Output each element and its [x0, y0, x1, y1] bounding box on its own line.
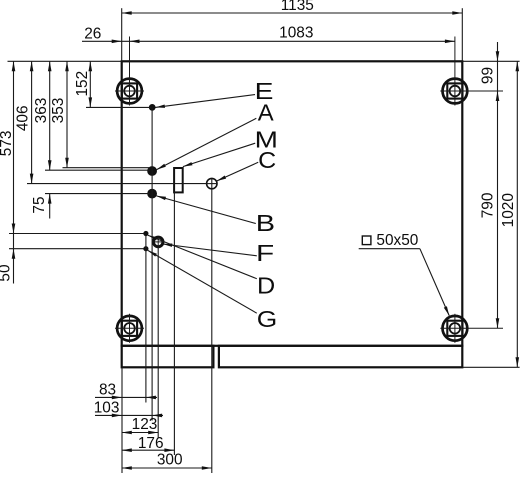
dimension 75 [49, 194, 51, 219]
svg-text:1135: 1135 [281, 0, 314, 14]
svg-text:A: A [258, 100, 274, 126]
svg-text:1020: 1020 [500, 193, 517, 227]
extension line E/A/B column [151, 107, 153, 420]
leader G [148, 250, 257, 313]
base strip right [219, 346, 462, 368]
extension line B level [45, 193, 150, 195]
dimension 176 [122, 449, 175, 451]
dimension 26 [82, 40, 130, 42]
mounting hole bottom-right [443, 316, 468, 341]
leader D [148, 235, 257, 278]
leader A [157, 118, 257, 169]
extension line F column [157, 247, 159, 438]
mounting hole top-left [117, 79, 142, 104]
svg-text:G: G [257, 306, 278, 332]
leader E [155, 95, 255, 108]
leader M [183, 143, 255, 166]
svg-text:103: 103 [94, 399, 120, 416]
svg-text:F: F [256, 240, 274, 266]
svg-text:50x50: 50x50 [376, 232, 418, 249]
extension line hole TR horizontal [440, 90, 503, 92]
dimension 300 [122, 467, 212, 469]
extension line A level [45, 169, 150, 171]
svg-text:176: 176 [138, 435, 164, 452]
svg-text:26: 26 [84, 25, 101, 42]
mounting hole top-right [443, 79, 468, 104]
dimension 406 [31, 61, 33, 183]
dimension 123 [122, 432, 158, 434]
svg-text:363: 363 [33, 98, 50, 124]
point E [149, 105, 155, 111]
dimension 1020 [516, 61, 518, 367]
base strip left [122, 346, 214, 368]
svg-text:300: 300 [157, 452, 183, 469]
dimension 353 [66, 61, 68, 167]
svg-text:B: B [256, 210, 275, 236]
extension line D level [9, 233, 144, 235]
mounting hole bottom-left [117, 316, 142, 341]
dimension 99 [497, 42, 499, 328]
note square 50x50 [362, 236, 371, 245]
point G [144, 247, 148, 251]
point A [148, 167, 157, 176]
dimension 152 [89, 61, 91, 107]
point D [144, 231, 148, 235]
extension line C column [211, 189, 213, 473]
dimension 573 [13, 61, 15, 283]
hole C [207, 178, 217, 188]
extension line hole TR vertical [454, 37, 456, 106]
hole F [153, 237, 163, 247]
slot M [174, 168, 183, 192]
svg-text:50: 50 [0, 264, 14, 281]
leader square 50x50 [359, 248, 420, 250]
svg-text:123: 123 [132, 416, 158, 433]
extension line G level [9, 248, 144, 250]
leader C [217, 162, 259, 181]
svg-text:D: D [257, 273, 275, 299]
dimension 363 [49, 61, 51, 170]
plate outline [122, 61, 463, 346]
svg-text:573: 573 [0, 131, 15, 157]
svg-text:75: 75 [31, 196, 48, 213]
dimension 83 [95, 396, 157, 398]
dimension 1135 [122, 12, 463, 14]
leader B [156, 196, 255, 224]
svg-text:152: 152 [74, 71, 91, 97]
svg-text:99: 99 [480, 67, 497, 84]
svg-text:83: 83 [99, 382, 116, 399]
dimension 790 [496, 318, 500, 328]
extension line bottom edge to right [462, 366, 519, 368]
extension line top edge to left [8, 60, 122, 62]
extension line C level [27, 183, 207, 185]
point B [148, 189, 157, 198]
svg-text:406: 406 [15, 105, 32, 131]
svg-text:1083: 1083 [279, 25, 313, 42]
svg-text:790: 790 [480, 193, 497, 219]
extension line left edge below plate [121, 367, 123, 473]
extension line hole TL vertical [129, 37, 131, 106]
dimension 50 [12, 249, 16, 259]
svg-text:C: C [258, 147, 276, 173]
extension line left edge above plate [121, 8, 123, 61]
extension line M-top level [63, 167, 151, 169]
extension line D/G column [145, 235, 147, 403]
svg-text:353: 353 [50, 98, 67, 124]
extension line hole BR horizontal [440, 327, 503, 329]
leader F [163, 244, 257, 256]
extension line E level [86, 106, 151, 108]
dimension 103 [95, 414, 163, 416]
extension line M column [173, 192, 175, 455]
extension line right edge above plate [461, 8, 463, 61]
extension line top edge to right [462, 60, 519, 62]
dimension 1083 [130, 40, 455, 42]
